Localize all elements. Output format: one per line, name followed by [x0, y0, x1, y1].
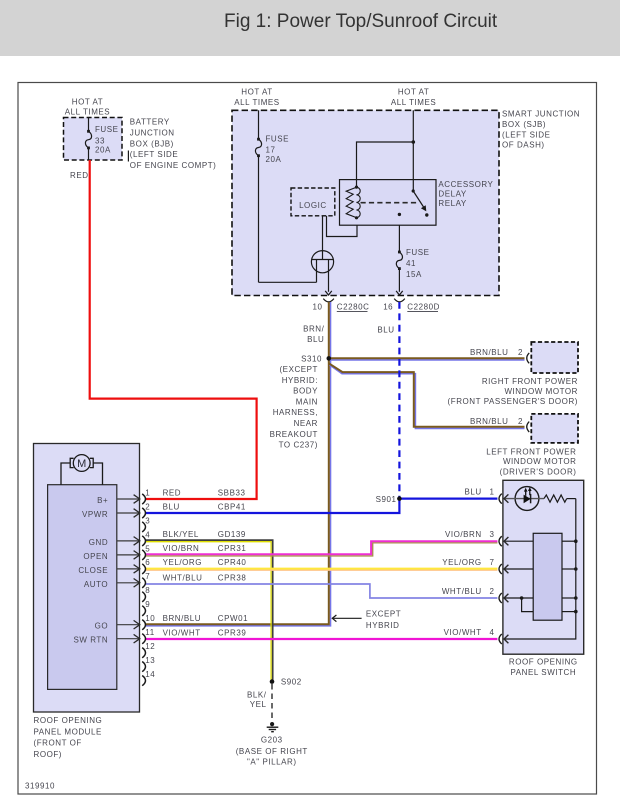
svg-text:JUNCTION: JUNCTION — [130, 129, 175, 138]
svg-text:CPR38: CPR38 — [218, 574, 247, 583]
svg-text:BRN/: BRN/ — [303, 324, 325, 333]
svg-text:BATTERY: BATTERY — [130, 118, 170, 127]
svg-text:PANEL SWITCH: PANEL SWITCH — [510, 668, 576, 677]
svg-text:VIO/BRN: VIO/BRN — [445, 530, 482, 539]
svg-text:FUSE: FUSE — [266, 135, 290, 144]
svg-text:OPEN: OPEN — [83, 552, 108, 561]
svg-text:20A: 20A — [266, 155, 282, 164]
svg-text:TO C237): TO C237) — [279, 441, 318, 450]
svg-text:DELAY: DELAY — [438, 190, 467, 199]
svg-text:BLK/: BLK/ — [247, 690, 267, 699]
svg-text:ROOF OPENING: ROOF OPENING — [34, 716, 103, 725]
svg-text:(EXCEPT: (EXCEPT — [279, 365, 318, 374]
svg-text:20A: 20A — [95, 145, 111, 154]
svg-text:YEL/ORG: YEL/ORG — [163, 558, 202, 567]
svg-text:ROOF OPENING: ROOF OPENING — [509, 657, 578, 666]
svg-text:Fig 1: Power Top/Sunroof Circu: Fig 1: Power Top/Sunroof Circuit — [224, 11, 498, 32]
svg-text:4: 4 — [490, 628, 495, 637]
svg-text:3: 3 — [145, 516, 150, 525]
svg-text:C2280D: C2280D — [407, 303, 440, 312]
svg-text:BLU: BLU — [377, 325, 394, 334]
svg-text:8: 8 — [145, 586, 150, 595]
svg-text:HOT AT: HOT AT — [72, 97, 103, 106]
svg-text:ALL TIMES: ALL TIMES — [234, 98, 279, 107]
svg-text:LEFT FRONT POWER: LEFT FRONT POWER — [486, 448, 576, 457]
svg-text:BRN/BLU: BRN/BLU — [470, 417, 509, 426]
svg-text:13: 13 — [145, 656, 155, 665]
svg-text:3: 3 — [490, 530, 495, 539]
svg-text:15A: 15A — [406, 270, 422, 279]
svg-text:NEAR: NEAR — [294, 419, 318, 428]
svg-text:MAIN: MAIN — [296, 397, 318, 406]
svg-text:WINDOW MOTOR: WINDOW MOTOR — [503, 457, 577, 466]
svg-text:OF ENGINE COMPT): OF ENGINE COMPT) — [130, 161, 217, 170]
svg-text:FUSE: FUSE — [406, 248, 430, 257]
svg-text:RELAY: RELAY — [438, 199, 467, 208]
svg-text:S902: S902 — [281, 678, 302, 687]
svg-text:BREAKOUT: BREAKOUT — [270, 430, 318, 439]
svg-text:ACCESSORY: ACCESSORY — [438, 180, 493, 189]
svg-text:2: 2 — [490, 587, 495, 596]
svg-text:41: 41 — [406, 259, 416, 268]
svg-text:BLU: BLU — [163, 503, 180, 512]
svg-text:CPR31: CPR31 — [218, 544, 247, 553]
svg-text:M: M — [77, 458, 86, 470]
svg-text:2: 2 — [518, 417, 523, 426]
svg-text:12: 12 — [145, 642, 155, 651]
svg-text:VIO/WHT: VIO/WHT — [444, 628, 482, 637]
svg-text:RIGHT FRONT POWER: RIGHT FRONT POWER — [482, 377, 578, 386]
svg-text:SW RTN: SW RTN — [73, 636, 108, 645]
svg-text:VPWR: VPWR — [82, 510, 108, 519]
svg-text:HYBRID:: HYBRID: — [282, 376, 318, 385]
svg-text:C2280C: C2280C — [337, 303, 370, 312]
svg-text:BRN/BLU: BRN/BLU — [470, 348, 509, 357]
svg-text:2: 2 — [518, 348, 523, 357]
svg-text:"A" PILLAR): "A" PILLAR) — [247, 757, 297, 766]
svg-text:SBB33: SBB33 — [218, 489, 246, 498]
svg-text:SMART JUNCTION: SMART JUNCTION — [502, 109, 580, 118]
svg-text:RED: RED — [163, 489, 182, 498]
svg-text:17: 17 — [266, 146, 276, 155]
svg-text:(BASE OF RIGHT: (BASE OF RIGHT — [236, 747, 308, 756]
svg-text:PANEL MODULE: PANEL MODULE — [34, 728, 102, 737]
svg-text:BOX (SJB): BOX (SJB) — [502, 120, 546, 129]
svg-text:GND: GND — [89, 538, 108, 547]
svg-text:33: 33 — [95, 136, 105, 145]
svg-text:(FRONT PASSENGER'S DOOR): (FRONT PASSENGER'S DOOR) — [448, 397, 578, 406]
svg-text:CPW01: CPW01 — [218, 614, 248, 623]
svg-text:FUSE: FUSE — [95, 125, 119, 134]
svg-text:RED: RED — [70, 171, 89, 180]
svg-text:CPR39: CPR39 — [218, 629, 247, 638]
svg-text:CBP41: CBP41 — [218, 503, 246, 512]
svg-text:2: 2 — [145, 502, 150, 511]
svg-text:HYBRID: HYBRID — [366, 621, 400, 630]
svg-text:B+: B+ — [97, 496, 108, 505]
svg-text:HOT AT: HOT AT — [241, 88, 272, 97]
svg-text:OF DASH): OF DASH) — [502, 141, 545, 150]
svg-text:S310: S310 — [301, 354, 322, 363]
svg-text:14: 14 — [145, 670, 155, 679]
svg-text:WINDOW MOTOR: WINDOW MOTOR — [504, 387, 578, 396]
svg-text:6: 6 — [145, 558, 150, 567]
svg-text:ROOF): ROOF) — [34, 750, 63, 759]
svg-text:YEL/ORG: YEL/ORG — [442, 558, 481, 567]
svg-text:7: 7 — [145, 572, 150, 581]
svg-text:CLOSE: CLOSE — [78, 566, 108, 575]
svg-text:BRN/BLU: BRN/BLU — [163, 614, 202, 623]
svg-text:BOX (BJB): BOX (BJB) — [130, 139, 174, 148]
svg-text:4: 4 — [145, 530, 150, 539]
svg-text:S901: S901 — [376, 495, 397, 504]
svg-text:ALL TIMES: ALL TIMES — [391, 98, 436, 107]
svg-text:(FRONT OF: (FRONT OF — [34, 739, 82, 748]
svg-text:5: 5 — [145, 544, 150, 553]
svg-text:VIO/BRN: VIO/BRN — [163, 544, 200, 553]
svg-text:BLU: BLU — [307, 335, 324, 344]
svg-text:(LEFT SIDE: (LEFT SIDE — [502, 130, 550, 139]
svg-text:16: 16 — [383, 303, 393, 312]
svg-text:HARNESS,: HARNESS, — [273, 408, 318, 417]
svg-text:(LEFT SIDE: (LEFT SIDE — [130, 150, 178, 159]
svg-text:BLK/YEL: BLK/YEL — [163, 530, 199, 539]
svg-text:WHT/BLU: WHT/BLU — [442, 587, 482, 596]
svg-text:1: 1 — [490, 488, 495, 497]
svg-text:(DRIVER'S DOOR): (DRIVER'S DOOR) — [500, 468, 577, 477]
svg-text:GD139: GD139 — [218, 530, 246, 539]
svg-text:1: 1 — [145, 488, 150, 497]
svg-text:LOGIC: LOGIC — [299, 201, 327, 210]
svg-text:G203: G203 — [261, 736, 283, 745]
svg-text:EXCEPT: EXCEPT — [366, 609, 401, 618]
svg-text:10: 10 — [145, 614, 155, 623]
svg-text:ALL TIMES: ALL TIMES — [65, 108, 110, 117]
svg-text:WHT/BLU: WHT/BLU — [163, 574, 203, 583]
svg-text:VIO/WHT: VIO/WHT — [163, 629, 201, 638]
svg-text:CPR40: CPR40 — [218, 558, 247, 567]
svg-text:YEL: YEL — [250, 700, 267, 709]
svg-text:BLU: BLU — [464, 488, 481, 497]
svg-text:10: 10 — [313, 303, 323, 312]
svg-text:GO: GO — [95, 622, 109, 631]
svg-text:9: 9 — [145, 600, 150, 609]
svg-text:HOT AT: HOT AT — [398, 88, 429, 97]
svg-text:BODY: BODY — [293, 387, 318, 396]
svg-text:7: 7 — [490, 558, 495, 567]
svg-text:319910: 319910 — [25, 782, 55, 791]
svg-text:AUTO: AUTO — [84, 580, 108, 589]
svg-text:11: 11 — [145, 628, 154, 637]
